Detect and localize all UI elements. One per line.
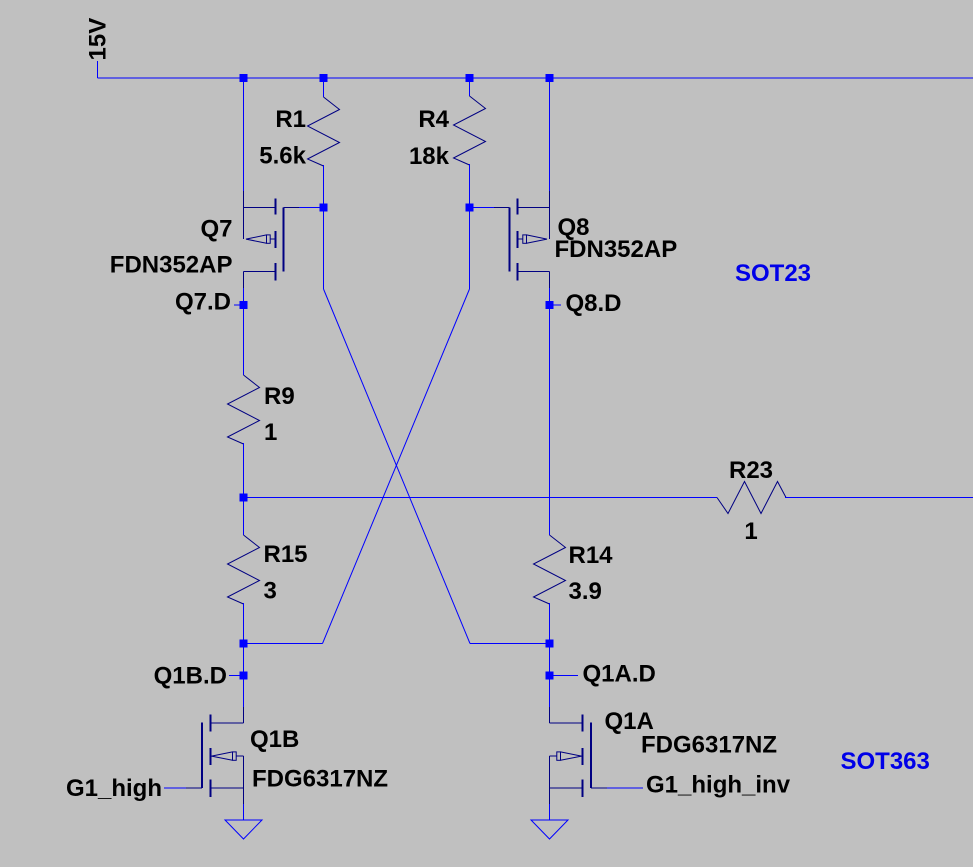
svg-text:Q8.D: Q8.D — [566, 290, 622, 317]
transistor Q7 FDN352AP (PMOS) — [110, 191, 299, 288]
svg-text:1: 1 — [264, 419, 277, 446]
svg-text:R1: R1 — [275, 106, 306, 133]
wire Q1A source to ground — [549, 804, 551, 820]
transistor Q8 FDN352AP (PMOS) — [494, 191, 677, 288]
annotation SOT23 — [735, 260, 811, 287]
svg-text:3.9: 3.9 — [569, 578, 602, 605]
wire top rail — [98, 77, 973, 79]
node Q8.D — [550, 290, 622, 317]
svg-text:1: 1 — [744, 518, 757, 545]
wire cross-couple from R1/Q7 gate node to Q1A.D side — [324, 208, 550, 644]
svg-text:G1_high: G1_high — [66, 775, 162, 802]
wire mid rail to R23 — [244, 497, 718, 499]
resistor R14 3.9 — [534, 305, 614, 644]
svg-text:G1_high_inv: G1_high_inv — [646, 772, 791, 799]
wire right column from rail to Q8 source — [549, 78, 551, 191]
resistor R4 18k — [409, 78, 486, 208]
junction — [546, 301, 554, 309]
wire mid rail right of R23 — [785, 497, 973, 499]
wire Q7 drain to Q7.D — [243, 288, 245, 305]
wire cross-couple from R4/Q8 gate node to Q1B.D side — [244, 208, 470, 644]
svg-text:Q7: Q7 — [200, 216, 232, 243]
svg-text:R15: R15 — [264, 541, 308, 568]
svg-text:FDG6317NZ: FDG6317NZ — [252, 766, 388, 793]
svg-text:Q1A.D: Q1A.D — [583, 661, 656, 688]
node G1_high — [66, 775, 186, 802]
svg-text:R14: R14 — [569, 542, 614, 569]
wire Q8 drain to Q8.D — [549, 288, 551, 305]
svg-text:FDG6317NZ: FDG6317NZ — [641, 732, 777, 759]
svg-text:R4: R4 — [418, 106, 449, 133]
junction — [240, 74, 248, 82]
svg-text:5.6k: 5.6k — [259, 143, 306, 170]
svg-text:Q7.D: Q7.D — [175, 289, 231, 316]
svg-text:FDN352AP: FDN352AP — [110, 252, 233, 279]
svg-text:R23: R23 — [729, 457, 773, 484]
junction — [240, 672, 248, 680]
svg-text:FDN352AP: FDN352AP — [555, 236, 678, 263]
ground under Q1B — [225, 820, 262, 839]
junction — [320, 204, 328, 212]
wire Q7 gate to node — [299, 207, 324, 209]
svg-text:SOT363: SOT363 — [841, 748, 930, 775]
junction — [320, 74, 328, 82]
node 15V — [85, 18, 112, 78]
resistor R23 1 — [717, 457, 786, 545]
resistor R9 1 — [228, 305, 295, 498]
svg-text:15V: 15V — [85, 18, 112, 61]
svg-text:SOT23: SOT23 — [735, 260, 811, 287]
junction — [546, 74, 554, 82]
junction — [546, 640, 554, 648]
wire left column from rail to Q7 source — [243, 78, 245, 191]
ground under Q1A — [531, 820, 568, 839]
wire Q1B.D to Q1B drain — [243, 676, 245, 708]
resistor R1 5.6k — [259, 78, 339, 208]
node Q7.D — [175, 289, 244, 316]
junction — [240, 301, 248, 309]
junction — [240, 640, 248, 648]
node G1_high_inv — [607, 772, 791, 799]
svg-text:Q1B: Q1B — [250, 726, 299, 753]
svg-text:18k: 18k — [409, 143, 450, 170]
node Q1A.D — [550, 661, 656, 688]
svg-text:Q1B.D: Q1B.D — [154, 663, 227, 690]
wire left column bottom junction to Q1B.D — [243, 644, 245, 676]
resistor R15 3 — [228, 498, 308, 644]
wire right column bottom junction to Q1A.D — [549, 644, 551, 676]
transistor Q1B FDG6317NZ (NMOS) — [186, 707, 388, 804]
wire Q1A.D to Q1A drain — [549, 676, 551, 708]
junction — [546, 672, 554, 680]
svg-text:R9: R9 — [264, 383, 295, 410]
junction — [240, 494, 248, 502]
junction — [466, 74, 474, 82]
junction — [466, 204, 474, 212]
svg-text:3: 3 — [264, 578, 277, 605]
transistor Q1A FDG6317NZ (NMOS) — [550, 707, 778, 804]
wire Q1B source to ground — [243, 804, 245, 820]
annotation SOT363 — [841, 748, 930, 775]
node Q1B.D — [154, 663, 244, 690]
wire Q8 gate to node — [470, 207, 495, 209]
